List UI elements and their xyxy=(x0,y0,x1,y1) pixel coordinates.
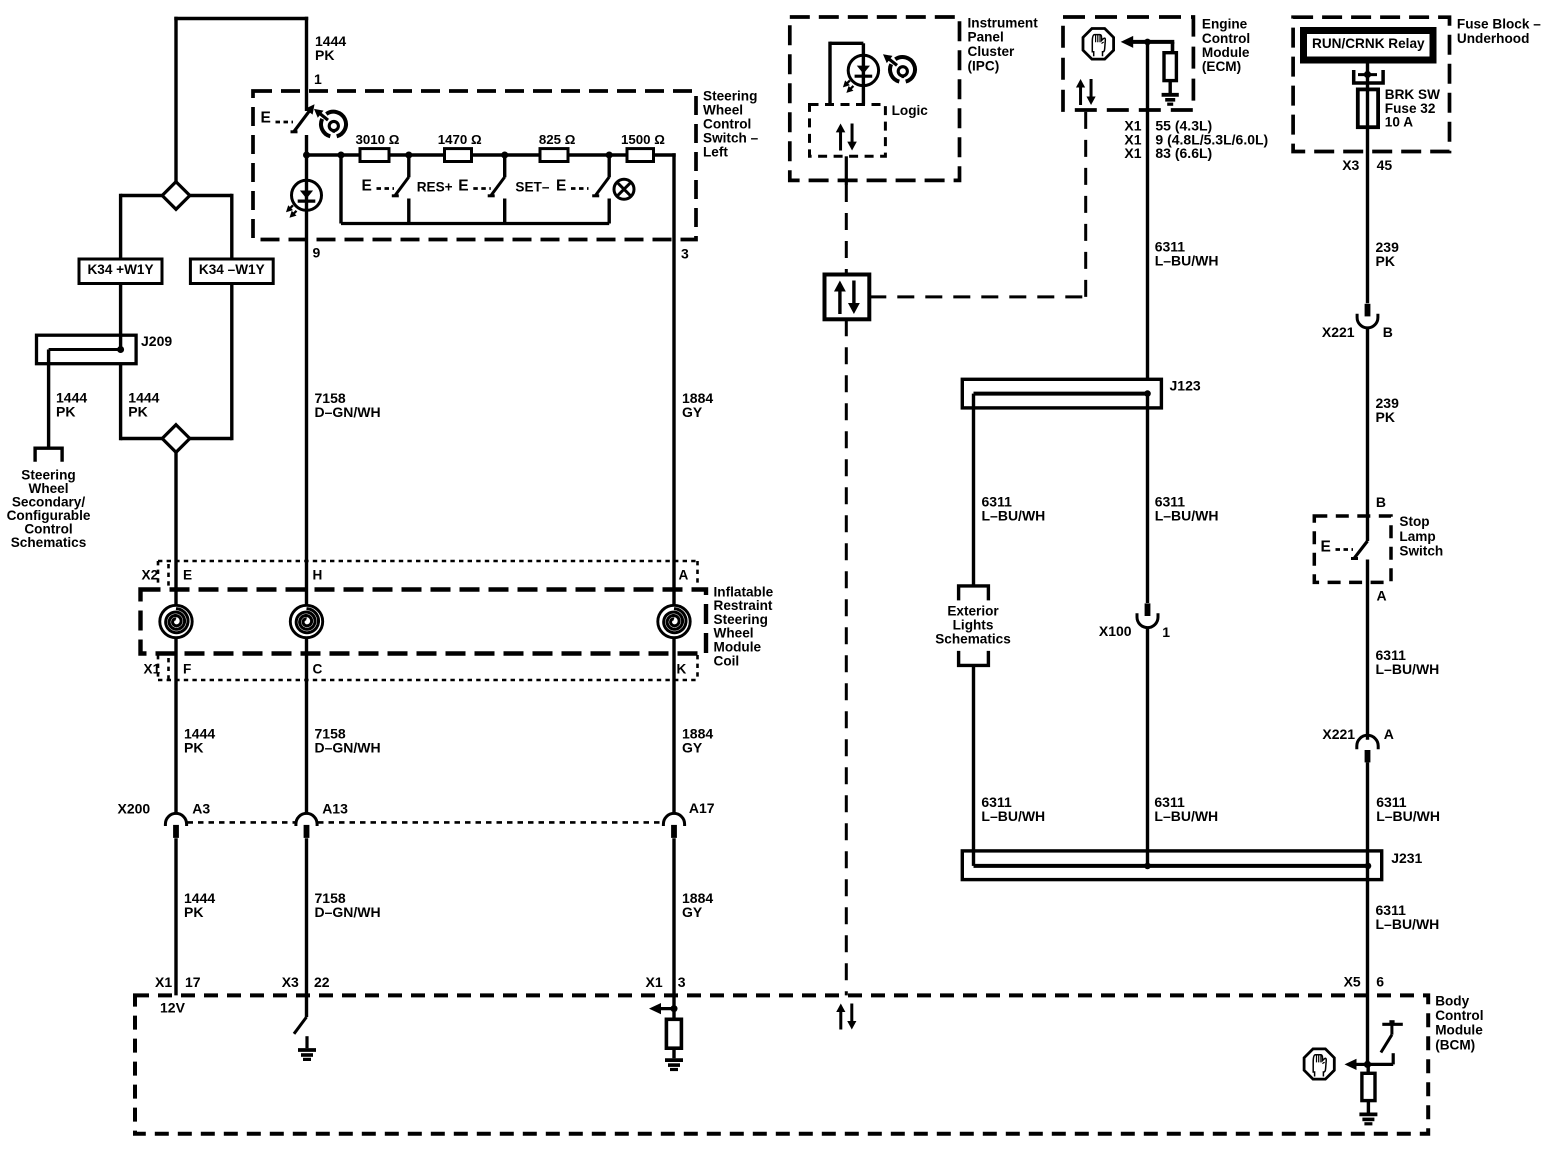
svg-text:E: E xyxy=(183,567,192,582)
svg-text:PK: PK xyxy=(184,739,203,755)
svg-text:D–GN/WH: D–GN/WH xyxy=(315,404,381,420)
svg-text:PK: PK xyxy=(56,403,75,419)
svg-text:1: 1 xyxy=(314,71,322,87)
svg-text:Steering: Steering xyxy=(703,88,757,103)
svg-text:A: A xyxy=(679,567,689,582)
svg-text:X1: X1 xyxy=(144,661,161,676)
svg-text:Cluster: Cluster xyxy=(968,44,1016,59)
svg-text:B: B xyxy=(1383,324,1393,340)
svg-text:6: 6 xyxy=(1376,973,1384,989)
svg-text:Restraint: Restraint xyxy=(714,598,773,613)
svg-text:SET–: SET– xyxy=(515,179,549,194)
svg-text:83 (6.6L): 83 (6.6L) xyxy=(1155,145,1212,161)
svg-text:3: 3 xyxy=(681,246,689,262)
svg-text:A3: A3 xyxy=(192,800,210,816)
svg-text:45: 45 xyxy=(1377,157,1393,173)
svg-text:L–BU/WH: L–BU/WH xyxy=(1155,507,1219,523)
svg-text:Inflatable: Inflatable xyxy=(714,584,774,599)
svg-text:BRK SW: BRK SW xyxy=(1385,87,1440,102)
svg-text:K34 +W1Y: K34 +W1Y xyxy=(87,262,153,277)
svg-text:Control: Control xyxy=(1202,31,1250,46)
svg-text:1470 Ω: 1470 Ω xyxy=(438,132,482,147)
svg-text:17: 17 xyxy=(185,974,201,990)
svg-text:E: E xyxy=(458,178,468,195)
svg-text:3: 3 xyxy=(678,974,686,990)
svg-text:RES+: RES+ xyxy=(417,179,453,194)
svg-text:A13: A13 xyxy=(322,800,348,816)
svg-text:X1: X1 xyxy=(646,974,663,990)
svg-text:Schematics: Schematics xyxy=(935,632,1011,647)
svg-text:L–BU/WH: L–BU/WH xyxy=(1376,916,1440,932)
svg-text:Coil: Coil xyxy=(714,653,740,668)
svg-text:Fuse Block –: Fuse Block – xyxy=(1457,17,1541,32)
svg-text:X1: X1 xyxy=(1124,145,1141,161)
svg-text:J209: J209 xyxy=(141,333,172,349)
svg-text:Lamp: Lamp xyxy=(1399,529,1435,544)
svg-text:Fuse 32: Fuse 32 xyxy=(1385,101,1436,116)
svg-text:PK: PK xyxy=(128,403,147,419)
svg-text:Wheel: Wheel xyxy=(714,626,754,641)
svg-text:12V: 12V xyxy=(160,1000,186,1016)
svg-text:Lights: Lights xyxy=(953,618,994,633)
svg-text:X100: X100 xyxy=(1099,623,1132,639)
svg-text:D–GN/WH: D–GN/WH xyxy=(315,904,381,920)
svg-text:PK: PK xyxy=(1376,409,1395,425)
svg-text:RUN/CRNK Relay: RUN/CRNK Relay xyxy=(1312,36,1425,51)
svg-text:L–BU/WH: L–BU/WH xyxy=(1376,661,1440,677)
svg-text:J123: J123 xyxy=(1170,378,1201,394)
svg-text:PK: PK xyxy=(1376,253,1395,269)
svg-text:Panel: Panel xyxy=(968,30,1004,45)
svg-text:E: E xyxy=(362,178,372,195)
svg-text:Wheel: Wheel xyxy=(703,102,743,117)
svg-text:Module: Module xyxy=(1202,45,1250,60)
svg-text:E: E xyxy=(261,110,271,127)
svg-text:Body: Body xyxy=(1435,994,1469,1009)
svg-text:K: K xyxy=(677,661,687,676)
svg-text:A17: A17 xyxy=(689,800,715,816)
svg-text:PK: PK xyxy=(184,904,203,920)
svg-text:A: A xyxy=(1384,726,1394,742)
svg-text:C: C xyxy=(313,661,323,676)
svg-text:X3: X3 xyxy=(1342,157,1359,173)
svg-text:A: A xyxy=(1377,588,1387,604)
svg-text:X3: X3 xyxy=(282,974,299,990)
svg-text:Module: Module xyxy=(1435,1023,1483,1038)
svg-text:9: 9 xyxy=(313,245,321,261)
svg-text:K34 –W1Y: K34 –W1Y xyxy=(199,262,265,277)
svg-text:Stop: Stop xyxy=(1399,514,1429,529)
svg-text:X221: X221 xyxy=(1322,324,1355,340)
svg-text:1500 Ω: 1500 Ω xyxy=(621,132,665,147)
svg-text:Switch: Switch xyxy=(1399,544,1443,559)
svg-text:X200: X200 xyxy=(118,800,151,816)
svg-text:H: H xyxy=(313,567,323,582)
svg-text:L–BU/WH: L–BU/WH xyxy=(981,808,1045,824)
svg-text:Engine: Engine xyxy=(1202,17,1248,32)
svg-text:Exterior: Exterior xyxy=(947,603,999,618)
svg-text:L–BU/WH: L–BU/WH xyxy=(1155,253,1219,269)
svg-text:L–BU/WH: L–BU/WH xyxy=(982,507,1046,523)
svg-text:Logic: Logic xyxy=(892,103,929,118)
svg-text:E: E xyxy=(556,178,566,195)
svg-text:Steering: Steering xyxy=(714,612,768,627)
svg-text:22: 22 xyxy=(314,974,330,990)
svg-text:GY: GY xyxy=(682,739,703,755)
svg-text:B: B xyxy=(1376,494,1386,510)
svg-text:825 Ω: 825 Ω xyxy=(539,132,576,147)
svg-text:3010 Ω: 3010 Ω xyxy=(356,132,400,147)
svg-text:X1: X1 xyxy=(155,974,172,990)
svg-text:Underhood: Underhood xyxy=(1457,31,1530,46)
svg-text:L–BU/WH: L–BU/WH xyxy=(1376,808,1440,824)
svg-text:F: F xyxy=(183,661,191,676)
svg-text:GY: GY xyxy=(682,904,703,920)
svg-text:(BCM): (BCM) xyxy=(1435,1037,1475,1052)
svg-text:X5: X5 xyxy=(1344,973,1361,989)
svg-text:Switch –: Switch – xyxy=(703,131,759,146)
svg-text:X2: X2 xyxy=(142,567,159,582)
svg-text:Control: Control xyxy=(703,117,751,132)
svg-text:D–GN/WH: D–GN/WH xyxy=(315,739,381,755)
svg-text:Left: Left xyxy=(703,145,728,160)
svg-text:PK: PK xyxy=(315,47,334,63)
svg-text:Schematics: Schematics xyxy=(11,535,87,550)
svg-text:10 A: 10 A xyxy=(1385,115,1413,130)
svg-text:(ECM): (ECM) xyxy=(1202,59,1241,74)
svg-text:J231: J231 xyxy=(1391,850,1422,866)
svg-text:1: 1 xyxy=(1162,624,1170,640)
svg-text:Control: Control xyxy=(1435,1008,1483,1023)
svg-text:X221: X221 xyxy=(1322,726,1355,742)
svg-text:GY: GY xyxy=(682,404,703,420)
svg-text:(IPC): (IPC) xyxy=(968,59,1000,74)
svg-text:Module: Module xyxy=(714,640,762,655)
svg-text:E: E xyxy=(1321,539,1331,556)
svg-text:Instrument: Instrument xyxy=(968,15,1039,30)
svg-text:L–BU/WH: L–BU/WH xyxy=(1154,808,1218,824)
